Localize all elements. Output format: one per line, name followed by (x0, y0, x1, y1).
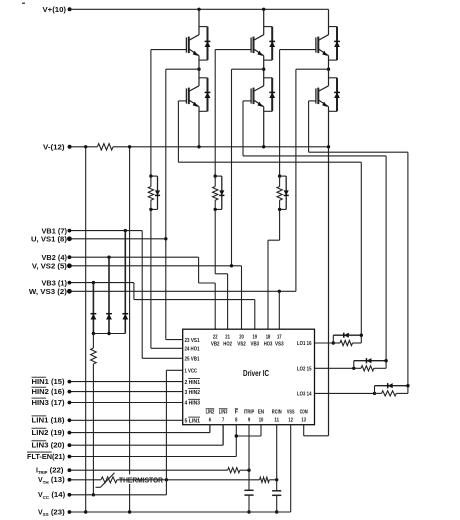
resistor R1 (gate, series) (150, 176, 152, 186)
wire VB1 vertical (141, 231, 143, 359)
svg-text:10: 10 (259, 418, 264, 424)
diode DR3 (gate anti-parallel) (280, 175, 287, 177)
wire Q5 emitter-diode bottom (329, 59, 338, 61)
wire LO2 right vertical (385, 156, 387, 361)
node VB3 terminal dot (68, 281, 72, 285)
wire VS2 vertical (231, 69, 233, 266)
junction bus / D8 leg (107, 332, 110, 335)
wire LO3 gate drop (308, 101, 310, 152)
diode D7 (bootstrap VB1) (124, 231, 126, 334)
svg-text:Driver IC: Driver IC (243, 369, 269, 378)
svg-text:V-(12): V-(12) (43, 145, 65, 152)
svg-text:17: 17 (277, 335, 282, 341)
svg-text:2 HIN1: 2 HIN1 (185, 380, 201, 386)
diode DR4 (gate anti-parallel) (332, 335, 334, 343)
junction HO1 pair top (149, 174, 152, 177)
junction HO3 pair top (278, 174, 281, 177)
wire HIN2 row (69, 391, 182, 393)
diode DR2 (gate anti-parallel) (215, 175, 222, 177)
node V- terminal dot (68, 145, 72, 149)
resistor R6 (gate, series) (375, 392, 382, 394)
node VB2 terminal dot (68, 255, 72, 259)
junction VB1 / bootstrap D7 (124, 229, 127, 232)
svg-text:W, VS3 (2): W, VS3 (2) (29, 289, 67, 296)
wire Q1 emitter to phase node (198, 56, 200, 70)
svg-text:9: 9 (248, 418, 250, 424)
wire VB2 jog (198, 257, 200, 283)
junction V,VS2 / VS2 vertical (230, 264, 233, 267)
transistor Q5 (upper IGBT) (318, 35, 328, 41)
wire Q3 emitter-diode bottom (264, 59, 273, 61)
transistor Q1 (upper IGBT) (189, 35, 199, 41)
node phase 5 junction dot (327, 68, 330, 71)
capacitor C1 (ITRIP filter) (248, 470, 250, 490)
wire U,VS1 row (69, 238, 165, 240)
node V,VS2 terminal dot (67, 263, 72, 268)
wire VS3 into pin 17 (278, 291, 280, 329)
node HIN2 terminal dot (68, 390, 72, 394)
wire V- to VSS (left) (85, 147, 87, 512)
junction VCC vertical / VTH row (165, 478, 168, 481)
junction HO2 pair top (214, 174, 217, 177)
node U,VS1 terminal dot (67, 236, 72, 241)
wire Q4 collector-diode top (264, 77, 273, 79)
transistor Q5 collector wire (328, 9, 330, 35)
svg-text:LIN1 (18): LIN1 (18) (32, 418, 65, 425)
svg-text:21: 21 (225, 335, 230, 341)
svg-text:LIN2: LIN2 (206, 410, 215, 416)
svg-text:RCIN: RCIN (272, 410, 282, 416)
wire VS3 vertical (295, 69, 297, 291)
junction V- / VSS drop (84, 145, 87, 148)
svg-text:13: 13 (301, 418, 306, 424)
node phase 1 junction dot (197, 68, 200, 71)
junction HO2 pair bottom (214, 208, 217, 211)
junction VB2 / bootstrap D8 (107, 256, 110, 259)
svg-text:5 LIN1: 5 LIN1 (185, 419, 201, 425)
wire VB1 row (69, 230, 142, 232)
wire LO1 pin row (315, 342, 334, 344)
svg-text:6: 6 (209, 418, 211, 424)
svg-text:VB2: VB2 (211, 342, 220, 348)
wire V- sense to VSS (129, 147, 131, 512)
wire Q3 emitter to phase node (263, 56, 265, 70)
wire Q1 emitter-diode bottom (199, 59, 208, 61)
svg-text:V, VS2 (5): V, VS2 (5) (32, 264, 67, 271)
svg-text:F: F (235, 410, 239, 416)
svg-text:19: 19 (253, 335, 258, 341)
wire HO3 vertical lower (279, 209, 281, 240)
svg-text:FLT-EN(21): FLT-EN(21) (27, 454, 65, 461)
svg-text:VB3 (1): VB3 (1) (42, 280, 67, 287)
svg-text:7: 7 (222, 418, 224, 424)
transistor Q4 collector wire (263, 69, 265, 86)
wire Q2 emitter to V- rail (198, 107, 200, 147)
node LIN2 terminal dot (68, 431, 72, 435)
wire HO2 vertical lower (214, 209, 216, 273)
wire VB2 row (69, 256, 198, 258)
wire LO1 gate row (178, 100, 186, 102)
wire Q6 emitter trunk to COM (328, 107, 330, 436)
node HIN1 terminal dot (68, 380, 72, 384)
svg-text:20: 20 (239, 335, 244, 341)
svg-text:VB1 (7): VB1 (7) (42, 228, 67, 235)
node ITRIP terminal dot (68, 468, 72, 472)
transistor Q2 (lower IGBT) (189, 86, 199, 92)
wire HO2 gate row (215, 49, 251, 51)
svg-text:8: 8 (235, 418, 237, 424)
wire Q4 emitter-diode bottom (264, 110, 273, 112)
wire pin 11 drop (276, 425, 278, 480)
wire LIN2 row (69, 432, 210, 434)
node VSS terminal dot (68, 510, 72, 514)
wire LO1 gate drop (177, 101, 179, 162)
diode D6 (freewheel lower) (336, 78, 338, 112)
wire HO1 gate row (151, 49, 187, 51)
junction bus / D9 leg (92, 332, 95, 335)
svg-text:1 VCC: 1 VCC (185, 369, 198, 375)
junction C2 / VSS rail (275, 510, 278, 513)
wire pin 9 drop (248, 425, 250, 471)
resistor R4 (gate, series) (333, 342, 340, 344)
resistor R5 (gate, series) (354, 367, 361, 369)
wire LO2 pin row (315, 367, 354, 369)
op-amp U1 Driver IC box (183, 329, 315, 425)
wire Q1 collector-diode top (199, 26, 208, 28)
wire HIN3 row (69, 402, 182, 404)
wire V,VS2 row (69, 265, 241, 267)
wire HO3 jog (268, 239, 280, 241)
wire VS1 vertical (165, 69, 167, 339)
svg-text:VS3: VS3 (275, 342, 284, 348)
diode DR1 (gate anti-parallel) (151, 175, 158, 177)
wire V+ rail (70, 8, 329, 10)
svg-text:3 HIN2: 3 HIN2 (185, 390, 201, 396)
wire VTH to RCIN node (117, 479, 260, 481)
wire LO2 gate drop (242, 101, 244, 156)
junction LO2 diode right (384, 359, 387, 362)
junction V- / Q2 emitter (197, 145, 200, 148)
node FLT-EN terminal dot (68, 455, 72, 459)
wire Q6 emitter-diode bottom (329, 110, 338, 112)
svg-text:LIN3 (20): LIN3 (20) (32, 443, 65, 450)
svg-text:EN: EN (258, 410, 264, 416)
wire Q3 collector-diode top (264, 26, 273, 28)
junction LO3 left (373, 392, 376, 395)
junction ITRIP / pin9 / C1 (247, 469, 250, 472)
wire LO3 pin row (315, 392, 375, 394)
resistor R9 (RCIN series) (260, 477, 270, 482)
wire Q2 collector-diode top (199, 77, 208, 79)
junction R7 / VCC row (92, 493, 95, 496)
svg-text:HO2: HO2 (223, 342, 232, 348)
junction V+ / Q3 collector (262, 8, 265, 11)
junction RCIN / pin11 / C2 (275, 478, 278, 481)
wire VS3 phase row (296, 68, 329, 70)
transistor Q6 collector wire (328, 69, 330, 86)
wire LO3 gate row (309, 100, 316, 102)
junction W,VS3 / pin 17 drop (278, 290, 281, 293)
stray mark top-left (22, 2, 25, 4)
svg-text:HIN2 (16): HIN2 (16) (32, 389, 65, 396)
junction LO3 diode right (406, 384, 409, 387)
wire Q6 collector-diode top (329, 77, 338, 79)
node VTH terminal dot (68, 478, 72, 482)
wire HO3 gate row (280, 49, 316, 51)
wire LIN1 row (69, 419, 182, 421)
svg-text:VSS: VSS (287, 410, 295, 416)
wire VB3 row (69, 282, 133, 284)
node VB1 terminal dot (68, 229, 72, 233)
node V+ terminal dot (68, 7, 72, 11)
svg-text:25 VB1: 25 VB1 (185, 357, 200, 363)
junction V- / Q4 emitter (262, 145, 265, 148)
wire VTH row (69, 479, 101, 481)
wire LO2 gate row (243, 100, 251, 102)
transistor Q4 (lower IGBT) (254, 86, 264, 92)
svg-text:23 VS1: 23 VS1 (185, 338, 200, 344)
wire bootstrap anode bus (93, 333, 125, 335)
wire pin 7 drop (222, 425, 224, 446)
wire W,VS3 row (69, 290, 296, 292)
resistor R2 (gate, series) (214, 176, 216, 186)
diode DR5 (gate anti-parallel) (353, 361, 355, 369)
wire VSS rail (69, 511, 290, 513)
svg-text:VS2: VS2 (237, 342, 246, 348)
junction V- rail end / Q6 trunk (327, 145, 330, 148)
svg-text:COM: COM (300, 410, 308, 416)
svg-text:VB2 (4): VB2 (4) (42, 255, 67, 262)
svg-text:LIN2 (19): LIN2 (19) (32, 430, 65, 437)
svg-text:LO1 16: LO1 16 (297, 341, 312, 347)
junction VSS / sense drop (128, 510, 131, 513)
wire VS2 into pin 20 (241, 266, 243, 329)
diode D9 (bootstrap VB3) (92, 283, 94, 334)
junction LO1 left (332, 341, 335, 344)
wire pin 12 drop (290, 425, 292, 512)
wire LO3 gate cross row (309, 151, 408, 153)
wire LIN3 row (69, 444, 223, 446)
svg-text:V+(10): V+(10) (43, 7, 67, 14)
transistor Q3 collector wire (263, 9, 265, 35)
resistor R7 (bootstrap charge) (92, 334, 94, 349)
junction HO1 pair bottom (149, 208, 152, 211)
wire LO1 right vertical (360, 162, 362, 335)
junction LO2 left (352, 367, 355, 370)
wire FLT-EN row (69, 456, 236, 458)
junction C1 / VSS rail (247, 510, 250, 513)
resistor R3 (gate, series) (279, 176, 281, 186)
wire VS1 phase row (166, 68, 199, 70)
diode D5 (freewheel upper) (336, 27, 338, 61)
svg-text:LO2 15: LO2 15 (297, 367, 312, 373)
THERMISTOR label (118, 475, 165, 485)
svg-text:LO3 14: LO3 14 (297, 392, 312, 398)
svg-text:HIN3 (17): HIN3 (17) (32, 400, 65, 407)
junction U,VS1 / VS1 vertical (164, 237, 167, 240)
node LIN3 terminal dot (68, 443, 72, 447)
wire F-EN tie row (236, 435, 261, 437)
svg-text:11: 11 (274, 418, 279, 424)
transistor Q2 collector wire (198, 69, 200, 86)
wire HIN1 row (69, 381, 182, 383)
thermistor RT1 (101, 477, 117, 483)
svg-text:22: 22 (213, 335, 218, 341)
resistor R8 (ITRIP series) (228, 468, 240, 473)
wire HO2 vertical upper (214, 50, 216, 177)
diode D8 (bootstrap VB2) (108, 257, 110, 333)
wire HO1 vertical lower (150, 209, 152, 348)
transistor Q3 (upper IGBT) (254, 35, 264, 41)
wire Q2 emitter-diode bottom (199, 110, 208, 112)
svg-text:U, VS1 (8): U, VS1 (8) (31, 237, 67, 244)
junction F pin / tie (235, 434, 238, 437)
junction HO3 pair bottom (278, 208, 281, 211)
capacitor C2 (RCIN) (276, 480, 278, 491)
wire VCC vertical to pin 1 (165, 370, 167, 495)
wire HO3 vertical upper (279, 50, 281, 177)
svg-text:ITRIP: ITRIP (244, 410, 255, 416)
junction VSS / V- drop (84, 510, 87, 513)
node HIN3 terminal dot (68, 401, 72, 405)
wire VCC row (69, 494, 166, 496)
junction V- resistor right / drop (128, 145, 131, 148)
wire Q5 collector-diode top (329, 26, 338, 28)
wire HO1 vertical upper (150, 50, 152, 177)
wire HO1 into pin 24 (151, 347, 183, 349)
wire Q4 emitter to V- rail (263, 107, 265, 147)
junction VB3 / bootstrap D9 (92, 281, 95, 284)
wire V- rail left (70, 146, 98, 148)
svg-text:LIN3: LIN3 (219, 410, 228, 416)
svg-text:12: 12 (288, 418, 293, 424)
diode D4 (freewheel lower) (271, 78, 273, 112)
wire Q5 emitter to phase node (328, 56, 330, 70)
junction V+ / Q1 collector (197, 8, 200, 11)
wire VS2 phase row (232, 68, 264, 70)
node VCC terminal dot (68, 493, 72, 497)
wire LO1 gate cross row (178, 161, 361, 163)
diode D3 (freewheel upper) (271, 27, 273, 61)
node LIN1 terminal dot (68, 418, 72, 422)
svg-text:24 HO1: 24 HO1 (185, 347, 200, 353)
wire pin 6 drop (209, 425, 211, 433)
junction LO1 diode right (360, 334, 363, 337)
wire pin 13 COM loop (303, 425, 305, 436)
svg-text:VB3: VB3 (251, 342, 260, 348)
transistor Q1 collector wire (198, 9, 200, 35)
wire VS1 into pin 23 (166, 339, 183, 341)
wire VB1 into pin 25 (142, 357, 183, 359)
diode DR6 (gate anti-parallel) (374, 386, 376, 394)
svg-text:HO3: HO3 (264, 342, 273, 348)
wire HO2 jog (215, 273, 227, 275)
transistor Q6 (lower IGBT) (318, 86, 328, 92)
node phase 3 junction dot (262, 68, 265, 71)
wire LO3 right vertical (407, 152, 409, 386)
diode D1 (freewheel upper) (207, 27, 209, 61)
wire ITRIP row (69, 469, 227, 471)
svg-text:18: 18 (266, 335, 271, 341)
wire LO2 gate cross row (243, 155, 386, 157)
resistor R-shunt on V- rail (97, 144, 113, 150)
svg-text:HIN1 (15): HIN1 (15) (32, 379, 65, 386)
wire VB3 jog (133, 283, 135, 300)
svg-text:4 HIN3: 4 HIN3 (185, 401, 201, 407)
node W,VS3 terminal dot (67, 289, 72, 294)
diode D2 (freewheel lower) (207, 78, 209, 112)
